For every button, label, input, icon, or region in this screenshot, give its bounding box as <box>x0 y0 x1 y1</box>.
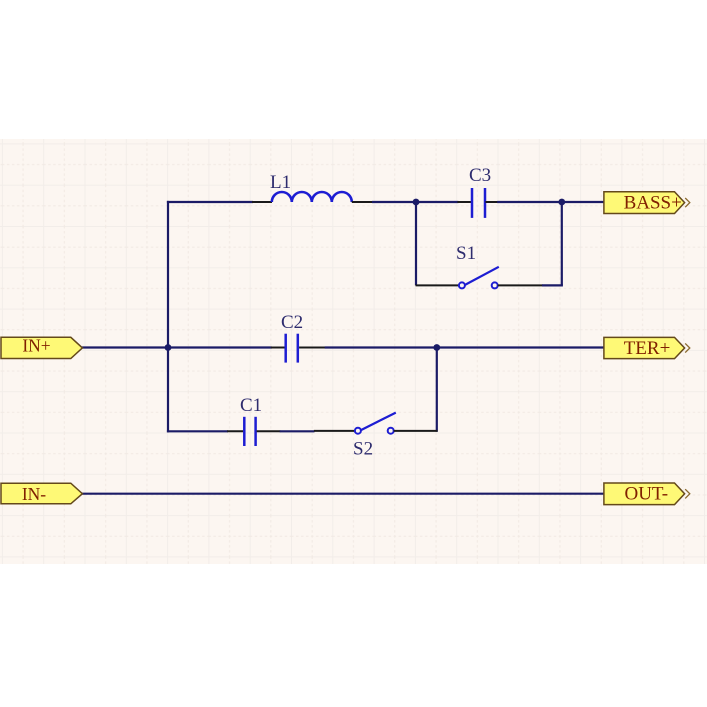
inductor L1 <box>272 192 352 202</box>
wire: node B to BASS+ flag <box>562 201 604 203</box>
wire: L1 to node A <box>372 201 416 203</box>
svg-text:S1: S1 <box>456 243 476 264</box>
switch S2 <box>355 413 396 434</box>
wire: C2 to node C and TER+ <box>325 346 604 348</box>
wire: C1 to S2 <box>280 430 315 432</box>
pin lead S1 left <box>416 284 459 286</box>
capacitor C2 <box>286 334 298 363</box>
wire: S1 left vertical <box>415 202 417 285</box>
svg-text:BASS+: BASS+ <box>624 193 682 214</box>
junction node C <box>433 344 440 351</box>
pin lead S2 left <box>314 430 355 432</box>
svg-text:IN+: IN+ <box>22 336 50 356</box>
wire: node A to C3 <box>416 201 458 203</box>
pin lead S2 right <box>394 430 438 432</box>
port IN+ <box>1 336 82 359</box>
svg-text:C2: C2 <box>281 312 303 333</box>
wire: C3 to node B <box>497 201 562 203</box>
wire: S1 bottom right <box>542 284 563 286</box>
pin lead L1 left <box>252 201 272 203</box>
switch S1 <box>459 267 499 289</box>
pin lead L1 right <box>352 201 372 203</box>
svg-text:OUT-: OUT- <box>624 484 668 505</box>
svg-text:L1: L1 <box>270 172 291 193</box>
wire: IN- to OUT- <box>82 493 604 495</box>
svg-text:C3: C3 <box>469 165 491 186</box>
port BASS+ <box>604 192 690 214</box>
pin lead C2 right <box>299 347 325 349</box>
svg-text:C1: C1 <box>240 395 262 416</box>
junction node at IN+ vertical <box>165 344 172 351</box>
wire: top row from corner to L1 <box>167 201 253 203</box>
pin lead C2 left <box>271 347 286 349</box>
capacitor C3 <box>472 188 485 218</box>
port TER+ <box>604 337 690 358</box>
port IN- <box>1 483 82 504</box>
wire: node C vertical down <box>436 348 438 432</box>
wire: IN+ to left vertical node <box>82 346 272 348</box>
pin lead C3 right <box>485 201 497 203</box>
junction node B <box>558 199 565 206</box>
svg-text:TER+: TER+ <box>624 338 671 359</box>
svg-text:IN-: IN- <box>22 484 46 504</box>
pin lead C1 right <box>257 430 281 432</box>
capacitor C1 <box>244 417 255 446</box>
schematic sheet band <box>0 139 707 564</box>
wire: S1 right vertical <box>561 202 563 285</box>
wire: left vertical (top row to C1 row) <box>167 201 169 433</box>
junction node A <box>413 199 420 206</box>
svg-text:S2: S2 <box>353 438 373 459</box>
port OUT- <box>604 483 690 505</box>
pin lead C1 left <box>227 430 243 432</box>
pin lead C3 left <box>457 201 471 203</box>
wire: C1 row from left vertical <box>167 430 228 432</box>
pin lead S1 right <box>498 284 543 286</box>
